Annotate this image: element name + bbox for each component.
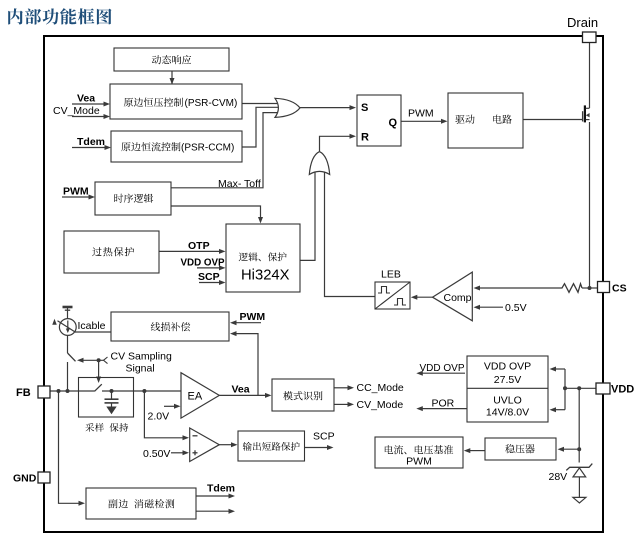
svg-text:Comp: Comp (444, 292, 472, 304)
wire CS node (582, 287, 598, 289)
svg-text:CV_Mode: CV_Mode (53, 105, 100, 117)
wire LEB output to OR2 (325, 172, 376, 297)
switch CV sampling (67, 336, 69, 354)
label 稳压器 (505, 444, 535, 453)
svg-text:R: R (361, 132, 369, 144)
svg-text:VDD OVP: VDD OVP (181, 258, 226, 269)
capacitor hold (110, 389, 114, 393)
label 原边恒流控制 (121, 142, 180, 151)
svg-text:(PSR-CVM): (PSR-CVM) (185, 98, 238, 109)
wire VDD rail down (578, 388, 580, 462)
node 0.5V (479, 306, 504, 308)
box 电流电压基准 PWM (375, 437, 463, 468)
svg-text:VDD: VDD (611, 384, 634, 396)
svg-text:PWM: PWM (406, 456, 432, 468)
box 采样保持 (79, 378, 134, 418)
svg-text:LEB: LEB (381, 269, 401, 281)
pin GND (38, 472, 50, 483)
wire EA output Vea to 模式识别 (219, 394, 266, 396)
node Tdem output (196, 495, 230, 497)
wire CV sampling control (81, 359, 104, 361)
svg-text:Q: Q (389, 117, 398, 129)
box 原边恒压控制 PSR-CVM (110, 84, 242, 119)
box LEB (375, 282, 410, 309)
wire Comp output to LEB (416, 296, 433, 298)
svg-text:CC_Mode: CC_Mode (357, 382, 404, 394)
box 逻辑保护 Hi324X (226, 224, 300, 292)
junction CS (588, 286, 592, 290)
svg-text:(PSR-CCM): (PSR-CCM) (181, 143, 234, 154)
pin Drain (583, 32, 597, 43)
title 内部功能框图 (8, 8, 111, 24)
label 电流电压基准 (385, 445, 453, 454)
op-amp Comp (433, 272, 473, 321)
label 驱动电路 (455, 115, 474, 124)
node CV_Mode (334, 403, 349, 405)
node PWM input to 时序逻辑 (62, 196, 89, 198)
wire Max-Toff to OR1 (171, 113, 278, 188)
svg-text:Vea: Vea (232, 384, 250, 396)
wire Q output PWM to 驱动电路 (401, 120, 442, 122)
wire VDD to 稳压器 (562, 448, 579, 450)
wire Drain pad to MOSFET drain (589, 42, 591, 108)
wire comparator output to 输出短路保护 (219, 444, 232, 446)
svg-text:2.0V: 2.0V (148, 411, 170, 423)
box 模式识别 (272, 379, 334, 411)
svg-text:POR: POR (432, 397, 455, 409)
svg-text:VDD OVP: VDD OVP (420, 363, 465, 374)
svg-text:UVLO: UVLO (493, 395, 522, 407)
switch sample-hold (95, 384, 102, 391)
node VDD OVP (197, 267, 220, 269)
pin CS (598, 282, 610, 293)
wire FB net (50, 390, 95, 392)
transistor power MOSFET (582, 111, 584, 121)
pin VDD (596, 383, 610, 394)
node 2.0V (164, 405, 175, 407)
svg-text:PWM: PWM (408, 108, 434, 120)
wire 时序逻辑 to 逻辑保护 (171, 206, 261, 218)
pin FB (38, 386, 50, 398)
label 线损补偿 (151, 322, 191, 331)
wire MOSFET source to CS node (589, 122, 591, 288)
label 时序逻辑 (114, 194, 153, 203)
svg-text:OTP: OTP (188, 240, 210, 252)
label 副边消磁检测 (108, 499, 174, 508)
current source Icable (63, 306, 73, 309)
wire Icable to 线损补偿 (75, 331, 111, 333)
label 动态响应 (152, 55, 191, 64)
box 线损补偿 (111, 312, 229, 341)
svg-text:28V: 28V (549, 471, 568, 483)
box 驱动电路 (448, 93, 523, 148)
svg-text:CV_Mode: CV_Mode (357, 399, 404, 411)
svg-text:VDD OVP: VDD OVP (484, 361, 531, 373)
node SCP input (199, 282, 220, 284)
svg-text:Icable: Icable (78, 320, 106, 332)
op-amp EA (181, 373, 219, 418)
wire gate drive to MOSFET (523, 119, 582, 121)
wire OR1 output to S input (300, 107, 350, 109)
svg-text:Vea: Vea (77, 93, 95, 105)
svg-text:27.5V: 27.5V (494, 374, 521, 386)
svg-text:SCP: SCP (198, 271, 220, 283)
node CC_Mode (334, 387, 349, 389)
svg-text:Drain: Drain (567, 15, 598, 30)
svg-text:SCP: SCP (313, 431, 335, 443)
or-gate OR1 (275, 98, 300, 117)
wire Vea branch to 线损补偿 (235, 334, 258, 396)
label 输出短路保护 (243, 442, 300, 451)
svg-text:S: S (361, 102, 368, 114)
box 过热保护 (64, 231, 159, 273)
svg-text:Max- Toff: Max- Toff (218, 178, 261, 190)
svg-text:FB: FB (16, 387, 31, 399)
wire 逻辑保护 output to OR2 (300, 172, 315, 260)
svg-text:Tdem: Tdem (77, 136, 105, 148)
box 原边恒流控制 PSR-CCM (111, 131, 242, 162)
svg-text:0.50V: 0.50V (143, 448, 170, 460)
svg-text:CV Sampling: CV Sampling (111, 351, 172, 363)
resistor CS sense (560, 284, 582, 293)
ground symbol (573, 497, 586, 503)
wire VDD to OVP/UVLO (554, 368, 566, 370)
wire FB to 副边消磁检测 (59, 391, 81, 503)
node OTP (159, 250, 220, 252)
label 逻辑保护 (239, 252, 287, 261)
svg-text:Tdem: Tdem (207, 483, 235, 495)
node POR (421, 408, 467, 410)
box 时序逻辑 (95, 182, 171, 215)
svg-text:14V/8.0V: 14V/8.0V (486, 407, 529, 419)
wire PSR-CVM output to OR1 (242, 103, 277, 105)
svg-text:PWM: PWM (63, 186, 89, 198)
wire PSR-CCM output to OR1 (242, 107, 278, 147)
box 动态响应 (114, 48, 229, 71)
label 电路 (493, 115, 511, 124)
wire OR2 output to R input (320, 136, 351, 151)
node Tdem input (72, 147, 105, 149)
zener diode 28V (566, 464, 592, 471)
box 输出短路保护 (238, 431, 305, 461)
svg-text:GND: GND (13, 473, 37, 485)
svg-text:EA: EA (188, 391, 203, 403)
box 稳压器 (485, 438, 556, 460)
node CV_Mode input (72, 116, 104, 118)
wire 稳压器 to 基准 (469, 450, 485, 452)
label 原边恒压控制 (124, 98, 183, 107)
node PWM to 线损补偿 (232, 322, 261, 324)
svg-text:CS: CS (612, 283, 627, 295)
svg-text:0.5V: 0.5V (505, 302, 527, 314)
node 0.50V (171, 452, 184, 454)
svg-text:Hi324X: Hi324X (241, 268, 290, 284)
node Vea input (72, 103, 104, 105)
label 采样保持 (85, 423, 128, 432)
box VDD OVP / UVLO (467, 356, 548, 422)
or-gate OR2 (309, 152, 329, 175)
wire 动态响应 to PSR-CVM (171, 71, 173, 84)
svg-text:Signal: Signal (126, 363, 155, 375)
node SCP output (305, 447, 329, 449)
svg-text:PWM: PWM (240, 311, 266, 323)
flip-flop SR latch (357, 95, 401, 146)
op-amp comparator 短路保护 (190, 428, 220, 462)
label 模式识别 (283, 391, 322, 400)
box 副边消磁检测 (86, 488, 196, 519)
wire FB to short-circuit comparator (144, 391, 184, 438)
label 过热保护 (92, 247, 134, 256)
node VDD OVP output (421, 372, 465, 374)
